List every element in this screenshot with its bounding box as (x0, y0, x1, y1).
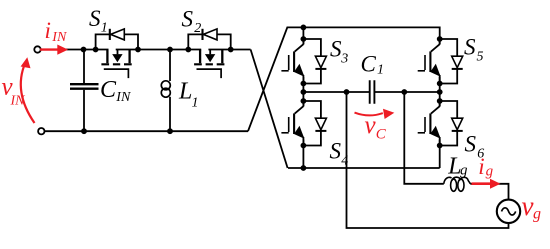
svg-text:v: v (522, 191, 534, 221)
svg-text:i: i (45, 18, 51, 43)
svg-text:v: v (365, 112, 377, 139)
svg-text:IN: IN (10, 94, 26, 109)
svg-text:IN: IN (51, 30, 67, 45)
svg-text:g: g (460, 162, 468, 178)
svg-text:S: S (89, 6, 101, 31)
svg-text:S: S (330, 139, 342, 164)
svg-text:5: 5 (477, 49, 484, 64)
svg-text:S: S (464, 35, 476, 60)
svg-text:S: S (330, 37, 342, 62)
svg-text:g: g (533, 206, 541, 223)
svg-text:C: C (361, 52, 377, 77)
svg-text:S: S (465, 132, 477, 157)
svg-text:L: L (178, 79, 192, 105)
svg-text:1: 1 (101, 21, 108, 36)
svg-text:3: 3 (340, 51, 348, 66)
svg-text:C: C (376, 126, 387, 142)
svg-text:1: 1 (192, 96, 199, 111)
svg-text:6: 6 (477, 146, 484, 161)
svg-text:2: 2 (194, 21, 201, 36)
svg-text:4: 4 (341, 153, 348, 168)
svg-text:S: S (182, 7, 194, 32)
svg-text:g: g (486, 163, 494, 179)
svg-text:1: 1 (377, 62, 384, 77)
svg-text:C: C (100, 77, 117, 103)
svg-text:IN: IN (115, 90, 131, 105)
